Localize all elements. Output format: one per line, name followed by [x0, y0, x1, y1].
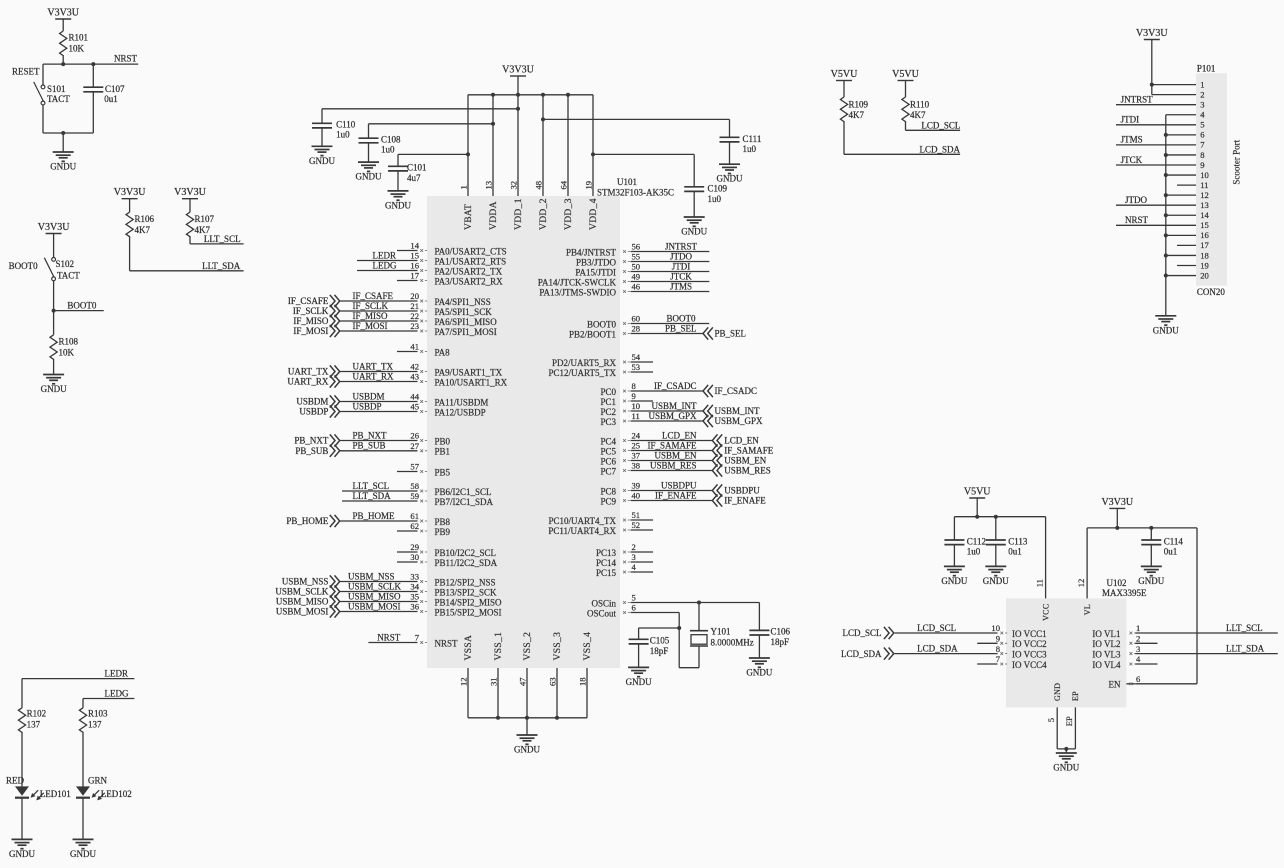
svg-text:12: 12	[459, 677, 469, 686]
svg-text:JTDI: JTDI	[672, 261, 691, 271]
svg-text:P101: P101	[1197, 63, 1216, 73]
svg-text:28: 28	[632, 324, 641, 334]
svg-text:16: 16	[1200, 230, 1209, 240]
svg-text:JTDO: JTDO	[1125, 195, 1147, 205]
svg-text:4K7: 4K7	[135, 225, 151, 235]
svg-text:V5VU: V5VU	[892, 69, 919, 80]
svg-text:C111: C111	[743, 134, 762, 144]
svg-text:10: 10	[1200, 170, 1209, 180]
svg-text:1u0: 1u0	[336, 130, 350, 140]
svg-text:14: 14	[410, 241, 419, 251]
svg-text:PC14: PC14	[596, 558, 617, 568]
svg-text:8: 8	[632, 381, 636, 391]
svg-text:IF_MISO: IF_MISO	[353, 311, 389, 321]
svg-text:55: 55	[632, 252, 641, 262]
svg-text:13: 13	[1200, 200, 1209, 210]
svg-text:GND: GND	[1053, 683, 1062, 701]
svg-text:VDDA: VDDA	[489, 201, 499, 230]
svg-text:CON20: CON20	[1197, 287, 1226, 297]
svg-text:RED: RED	[6, 776, 25, 786]
svg-text:33: 33	[410, 572, 419, 582]
svg-text:6: 6	[1200, 130, 1205, 140]
svg-text:8.0000MHz: 8.0000MHz	[711, 637, 754, 647]
svg-text:4K7: 4K7	[910, 110, 926, 120]
svg-text:38: 38	[632, 461, 641, 471]
svg-text:GNDU: GNDU	[356, 172, 382, 182]
svg-text:USBM_GPX: USBM_GPX	[715, 416, 764, 426]
svg-text:LEDR: LEDR	[105, 669, 129, 679]
svg-text:4: 4	[1136, 654, 1141, 664]
svg-text:LCD_SDA: LCD_SDA	[841, 649, 882, 659]
svg-text:PB9: PB9	[435, 527, 451, 537]
svg-text:USBM_INT: USBM_INT	[715, 406, 761, 416]
svg-text:USBDM: USBDM	[353, 391, 385, 401]
svg-text:Y101: Y101	[711, 627, 731, 637]
svg-text:39: 39	[632, 481, 641, 491]
svg-text:IF_CSAFE: IF_CSAFE	[353, 291, 394, 301]
svg-text:V3V3U: V3V3U	[38, 222, 70, 233]
svg-text:C107: C107	[105, 84, 125, 94]
svg-text:50: 50	[632, 262, 641, 272]
svg-text:PB13/SPI2_SCK: PB13/SPI2_SCK	[435, 587, 498, 597]
svg-text:25: 25	[632, 441, 641, 451]
svg-text:18pF: 18pF	[650, 646, 669, 656]
svg-text:LCD_SDA: LCD_SDA	[920, 144, 961, 154]
svg-text:JTMS: JTMS	[670, 281, 692, 291]
svg-text:PC9: PC9	[600, 496, 616, 506]
svg-text:USBM_SCLK: USBM_SCLK	[275, 587, 329, 597]
svg-text:16: 16	[410, 261, 419, 271]
svg-text:S102: S102	[56, 259, 75, 269]
svg-text:31: 31	[489, 677, 499, 686]
svg-text:56: 56	[632, 242, 641, 252]
svg-text:VDD_4: VDD_4	[589, 198, 599, 230]
svg-text:USBM_GPX: USBM_GPX	[648, 411, 697, 421]
svg-text:10K: 10K	[69, 44, 85, 54]
svg-text:C110: C110	[336, 120, 356, 130]
svg-text:10K: 10K	[59, 347, 75, 357]
svg-text:PA2/USART2_TX: PA2/USART2_TX	[435, 266, 503, 276]
svg-text:2: 2	[1200, 89, 1204, 99]
svg-text:VSS_1: VSS_1	[494, 632, 504, 661]
svg-text:NRST: NRST	[114, 54, 138, 64]
svg-text:137: 137	[27, 720, 41, 730]
svg-text:VBAT: VBAT	[464, 204, 474, 230]
svg-text:NRST: NRST	[1125, 215, 1149, 225]
svg-text:48: 48	[534, 181, 544, 190]
svg-text:PB_SUB: PB_SUB	[353, 441, 386, 451]
svg-text:IO VCC4: IO VCC4	[1012, 660, 1047, 670]
svg-text:29: 29	[410, 542, 419, 552]
svg-text:IF_CSADC: IF_CSADC	[715, 386, 758, 396]
svg-text:1u0: 1u0	[967, 547, 981, 557]
svg-text:USBDP: USBDP	[299, 407, 328, 417]
svg-text:LEDR: LEDR	[373, 250, 397, 260]
svg-text:GNDU: GNDU	[1153, 325, 1179, 335]
svg-text:0u1: 0u1	[1164, 547, 1178, 557]
svg-text:VL: VL	[1083, 604, 1092, 615]
svg-text:PA9/USART1_TX: PA9/USART1_TX	[435, 367, 503, 377]
svg-text:5: 5	[632, 593, 636, 603]
svg-text:BOOT0: BOOT0	[9, 261, 38, 271]
svg-text:USBM_MISO: USBM_MISO	[348, 591, 401, 601]
svg-text:LEDG: LEDG	[105, 689, 129, 699]
svg-text:LEDG: LEDG	[373, 260, 397, 270]
svg-text:137: 137	[88, 720, 102, 730]
svg-text:0u1: 0u1	[1008, 547, 1022, 557]
svg-text:C105: C105	[650, 636, 670, 646]
svg-text:VSSA: VSSA	[464, 635, 474, 661]
svg-text:PA8: PA8	[435, 347, 451, 357]
svg-text:11: 11	[1200, 180, 1208, 190]
svg-text:24: 24	[632, 431, 641, 441]
svg-text:UART_RX: UART_RX	[353, 371, 394, 381]
svg-text:20: 20	[410, 291, 419, 301]
svg-text:PB12/SPI2_NSS: PB12/SPI2_NSS	[435, 577, 496, 587]
svg-text:6: 6	[1136, 674, 1141, 684]
svg-text:Scooter Port: Scooter Port	[1231, 139, 1241, 184]
svg-text:PC3: PC3	[600, 417, 616, 427]
svg-text:USBM_NSS: USBM_NSS	[282, 577, 329, 587]
svg-text:PB_SUB: PB_SUB	[295, 446, 328, 456]
svg-text:1u0: 1u0	[381, 144, 395, 154]
svg-text:PC2: PC2	[600, 407, 616, 417]
svg-text:V3V3U: V3V3U	[502, 64, 534, 75]
svg-text:JTDO: JTDO	[670, 251, 692, 261]
svg-text:62: 62	[410, 521, 419, 531]
svg-text:63: 63	[548, 677, 558, 686]
svg-text:PB0: PB0	[435, 436, 451, 446]
svg-text:PA5/SPI1_SCK: PA5/SPI1_SCK	[435, 307, 493, 317]
svg-text:PB1: PB1	[435, 447, 451, 457]
svg-text:22: 22	[410, 311, 419, 321]
svg-text:LCD_SCL: LCD_SCL	[842, 628, 881, 638]
svg-text:43: 43	[410, 372, 419, 382]
svg-text:V3V3U: V3V3U	[47, 7, 79, 18]
svg-text:R101: R101	[69, 33, 89, 43]
svg-text:OSCout: OSCout	[587, 608, 617, 618]
svg-text:12: 12	[1076, 579, 1086, 588]
svg-text:V5VU: V5VU	[964, 486, 991, 497]
svg-text:17: 17	[1200, 240, 1209, 250]
svg-text:LCD_SCL: LCD_SCL	[921, 120, 960, 130]
svg-text:23: 23	[410, 321, 419, 331]
svg-text:V3V3U: V3V3U	[114, 187, 146, 198]
svg-text:49: 49	[632, 272, 641, 282]
svg-text:PC4: PC4	[600, 436, 616, 446]
svg-text:PC12/UART5_TX: PC12/UART5_TX	[549, 368, 617, 378]
svg-text:PA7/SPI1_MOSI: PA7/SPI1_MOSI	[435, 327, 497, 337]
svg-text:1: 1	[459, 185, 469, 189]
svg-text:PB4/JNTRST: PB4/JNTRST	[566, 247, 617, 257]
svg-text:LLT_SCL: LLT_SCL	[353, 481, 390, 491]
svg-text:IO VL2: IO VL2	[1092, 639, 1120, 649]
svg-text:PB_NXT: PB_NXT	[294, 436, 329, 446]
svg-text:GNDU: GNDU	[681, 227, 707, 237]
svg-text:7: 7	[415, 633, 420, 643]
svg-text:3: 3	[632, 552, 636, 562]
svg-text:USBDPU: USBDPU	[661, 480, 697, 490]
svg-text:PA1/USART2_RTS: PA1/USART2_RTS	[435, 256, 507, 266]
svg-text:VDD_3: VDD_3	[564, 198, 574, 230]
svg-text:USBM_MISO: USBM_MISO	[276, 597, 329, 607]
svg-text:TACT: TACT	[57, 270, 80, 280]
svg-text:PC8: PC8	[600, 486, 616, 496]
svg-text:8: 8	[1200, 150, 1204, 160]
svg-text:PB14/SPI2_MISO: PB14/SPI2_MISO	[435, 597, 503, 607]
svg-text:7: 7	[996, 654, 1001, 664]
svg-text:USBM_MOSI: USBM_MOSI	[276, 607, 329, 617]
svg-text:PA14/JTCK-SWCLK: PA14/JTCK-SWCLK	[538, 277, 617, 287]
svg-text:VCC: VCC	[1041, 604, 1050, 621]
svg-text:PC11/UART4_RX: PC11/UART4_RX	[548, 526, 616, 536]
svg-text:6: 6	[632, 603, 637, 613]
svg-text:IF_CSADC: IF_CSADC	[654, 381, 697, 391]
svg-text:PC15: PC15	[596, 568, 617, 578]
svg-text:MAX3395E: MAX3395E	[1102, 588, 1147, 598]
svg-text:USBM_NSS: USBM_NSS	[348, 571, 395, 581]
svg-text:EP: EP	[1064, 716, 1074, 726]
svg-text:IO VCC1: IO VCC1	[1012, 629, 1047, 639]
svg-text:5: 5	[1046, 718, 1056, 722]
svg-text:IF_MOSI: IF_MOSI	[353, 321, 388, 331]
svg-text:46: 46	[632, 282, 641, 292]
svg-text:15: 15	[410, 251, 419, 261]
svg-text:10: 10	[632, 401, 641, 411]
svg-text:IO VCC2: IO VCC2	[1012, 639, 1047, 649]
svg-text:1: 1	[1136, 623, 1140, 633]
svg-text:USBM_SCLK: USBM_SCLK	[348, 581, 402, 591]
svg-text:GNDU: GNDU	[1138, 576, 1164, 586]
svg-text:JTCK: JTCK	[1121, 155, 1143, 165]
svg-text:S101: S101	[47, 84, 66, 94]
svg-text:C114: C114	[1164, 536, 1184, 546]
svg-text:PC0: PC0	[600, 387, 616, 397]
svg-text:USBDP: USBDP	[353, 401, 382, 411]
svg-text:PB5: PB5	[435, 467, 451, 477]
svg-text:BOOT0: BOOT0	[67, 300, 96, 310]
svg-text:LCD_EN: LCD_EN	[724, 436, 759, 446]
svg-text:GNDU: GNDU	[626, 677, 652, 687]
svg-text:PD2/UART5_RX: PD2/UART5_RX	[552, 358, 616, 368]
svg-text:18: 18	[1200, 250, 1209, 260]
svg-text:PC1: PC1	[600, 397, 616, 407]
svg-text:4K7: 4K7	[849, 110, 865, 120]
svg-text:21: 21	[410, 301, 419, 311]
svg-text:7: 7	[1200, 140, 1205, 150]
svg-text:4u7: 4u7	[407, 173, 421, 183]
svg-text:11: 11	[1034, 579, 1044, 587]
svg-text:JNTRST: JNTRST	[1121, 95, 1154, 105]
svg-text:IO VL1: IO VL1	[1092, 629, 1120, 639]
svg-text:USBM_MOSI: USBM_MOSI	[348, 601, 401, 611]
svg-text:35: 35	[410, 592, 419, 602]
svg-text:VSS_3: VSS_3	[553, 632, 563, 661]
svg-text:18: 18	[578, 677, 588, 686]
svg-text:17: 17	[410, 271, 419, 281]
svg-text:9: 9	[996, 634, 1000, 644]
svg-text:UART_RX: UART_RX	[287, 377, 328, 387]
svg-text:PA6/SPI1_MISO: PA6/SPI1_MISO	[435, 317, 498, 327]
svg-text:PA13/JTMS-SWDIO: PA13/JTMS-SWDIO	[539, 287, 616, 297]
svg-text:U101: U101	[617, 177, 637, 187]
svg-text:BOOT0: BOOT0	[667, 313, 696, 323]
svg-text:C109: C109	[708, 184, 728, 194]
svg-text:IF_CSAFE: IF_CSAFE	[288, 296, 329, 306]
svg-text:64: 64	[559, 180, 569, 189]
svg-text:IF_SCLK: IF_SCLK	[293, 306, 329, 316]
svg-text:40: 40	[632, 491, 641, 501]
svg-text:TACT: TACT	[47, 94, 70, 104]
svg-text:PC7: PC7	[600, 466, 616, 476]
svg-text:PC6: PC6	[600, 456, 616, 466]
svg-text:54: 54	[632, 352, 641, 362]
svg-text:LLT_SDA: LLT_SDA	[1226, 643, 1265, 653]
svg-text:USBM_RES: USBM_RES	[650, 460, 697, 470]
svg-text:PA0/USART2_CTS: PA0/USART2_CTS	[435, 246, 507, 256]
svg-text:V3V3U: V3V3U	[1101, 497, 1133, 508]
svg-text:9: 9	[632, 391, 636, 401]
svg-text:EP: EP	[1071, 691, 1080, 701]
svg-text:GNDU: GNDU	[385, 200, 411, 210]
svg-text:V5VU: V5VU	[831, 69, 858, 80]
svg-text:15: 15	[1200, 220, 1209, 230]
svg-text:C108: C108	[381, 134, 401, 144]
svg-text:NRST: NRST	[377, 632, 401, 642]
svg-text:PA15/JTDI: PA15/JTDI	[575, 267, 616, 277]
svg-text:VSS_2: VSS_2	[523, 632, 533, 661]
svg-text:VDD_2: VDD_2	[539, 198, 549, 230]
svg-text:VDD_1: VDD_1	[514, 198, 524, 230]
svg-text:GNDU: GNDU	[9, 849, 35, 859]
svg-text:36: 36	[410, 602, 419, 612]
svg-text:19: 19	[1200, 260, 1209, 270]
svg-text:GNDU: GNDU	[514, 745, 540, 755]
svg-text:41: 41	[410, 342, 419, 352]
svg-text:PB7/I2C1_SDA: PB7/I2C1_SDA	[435, 497, 494, 507]
svg-text:PC5: PC5	[600, 446, 616, 456]
svg-text:V3V3U: V3V3U	[1136, 28, 1168, 39]
svg-text:GNDU: GNDU	[1053, 763, 1079, 773]
svg-text:2: 2	[1136, 634, 1140, 644]
svg-text:PB10/I2C2_SCL: PB10/I2C2_SCL	[435, 548, 497, 558]
svg-text:JNTRST: JNTRST	[665, 241, 698, 251]
svg-text:IO VL4: IO VL4	[1092, 660, 1121, 670]
svg-text:60: 60	[632, 314, 641, 324]
svg-text:44: 44	[410, 392, 419, 402]
svg-text:LCD_SDA: LCD_SDA	[917, 643, 958, 653]
svg-text:JTCK: JTCK	[670, 271, 692, 281]
svg-text:PB15/SPI2_MOSI: PB15/SPI2_MOSI	[435, 607, 502, 617]
svg-text:PC13: PC13	[596, 548, 617, 558]
svg-text:PB_NXT: PB_NXT	[353, 430, 388, 440]
svg-text:BOOT0: BOOT0	[587, 319, 616, 329]
svg-text:GNDU: GNDU	[41, 384, 67, 394]
svg-text:3: 3	[1136, 644, 1140, 654]
svg-text:4: 4	[1200, 110, 1205, 120]
svg-text:IO VL3: IO VL3	[1092, 650, 1121, 660]
svg-text:1u0: 1u0	[743, 144, 757, 154]
svg-text:IF_SCLK: IF_SCLK	[353, 301, 389, 311]
svg-text:IF_MOSI: IF_MOSI	[293, 326, 328, 336]
svg-text:8: 8	[996, 644, 1000, 654]
svg-text:PA11/USBDM: PA11/USBDM	[435, 397, 489, 407]
svg-text:PA10/USART1_RX: PA10/USART1_RX	[435, 377, 508, 387]
svg-text:1: 1	[1200, 79, 1204, 89]
svg-text:USBDPU: USBDPU	[724, 486, 760, 496]
svg-text:57: 57	[410, 462, 419, 472]
svg-text:GNDU: GNDU	[941, 576, 967, 586]
svg-text:PB11/I2C2_SDA: PB11/I2C2_SDA	[435, 558, 498, 568]
svg-text:PA3/USART2_RX: PA3/USART2_RX	[435, 276, 504, 286]
svg-text:USBDM: USBDM	[296, 397, 328, 407]
svg-text:USBM_EN: USBM_EN	[724, 456, 767, 466]
svg-text:13: 13	[484, 181, 494, 190]
svg-text:V3V3U: V3V3U	[174, 187, 206, 198]
svg-text:PB8: PB8	[435, 517, 451, 527]
svg-text:GNDU: GNDU	[717, 174, 743, 184]
svg-text:PB3/JTDO: PB3/JTDO	[576, 257, 617, 267]
svg-text:0u1: 0u1	[104, 94, 118, 104]
svg-text:3: 3	[1200, 100, 1204, 110]
svg-text:VSS_4: VSS_4	[583, 632, 593, 661]
svg-text:14: 14	[1200, 210, 1209, 220]
svg-text:32: 32	[509, 181, 519, 190]
svg-text:34: 34	[410, 582, 419, 592]
svg-text:18pF: 18pF	[771, 637, 790, 647]
svg-text:C106: C106	[771, 627, 791, 637]
svg-text:IF_SAMAFE: IF_SAMAFE	[647, 440, 697, 450]
svg-text:PB_SEL: PB_SEL	[715, 329, 747, 339]
svg-text:PB_SEL: PB_SEL	[665, 323, 697, 333]
svg-text:GNDU: GNDU	[983, 576, 1009, 586]
svg-text:27: 27	[410, 441, 419, 451]
svg-text:PB6/I2C1_SCL: PB6/I2C1_SCL	[435, 487, 492, 497]
svg-text:U102: U102	[1107, 578, 1127, 588]
svg-text:19: 19	[584, 181, 594, 190]
svg-text:LLT_SCL: LLT_SCL	[1226, 623, 1263, 633]
svg-text:R103: R103	[88, 709, 108, 719]
svg-text:IO VCC3: IO VCC3	[1012, 650, 1047, 660]
svg-text:EN: EN	[1109, 680, 1121, 690]
svg-text:GNDU: GNDU	[50, 162, 76, 172]
svg-text:GNDU: GNDU	[309, 156, 335, 166]
svg-text:58: 58	[410, 481, 419, 491]
svg-text:IF_ENAFE: IF_ENAFE	[724, 496, 766, 506]
svg-text:RESET: RESET	[12, 67, 40, 77]
svg-text:LLT_SCL: LLT_SCL	[204, 234, 241, 244]
svg-text:GRN: GRN	[88, 776, 108, 786]
svg-text:USBM_INT: USBM_INT	[651, 401, 697, 411]
svg-text:11: 11	[632, 411, 640, 421]
svg-text:LED102: LED102	[101, 789, 132, 799]
svg-text:10: 10	[991, 623, 1000, 633]
svg-text:IF_SAMAFE: IF_SAMAFE	[724, 446, 774, 456]
svg-text:PA12/USBDP: PA12/USBDP	[435, 407, 486, 417]
svg-text:R110: R110	[910, 99, 930, 109]
svg-text:USBM_EN: USBM_EN	[654, 450, 697, 460]
svg-text:C112: C112	[967, 536, 986, 546]
svg-text:R108: R108	[59, 336, 79, 346]
svg-text:GNDU: GNDU	[746, 668, 772, 678]
svg-text:PB2/BOOT1: PB2/BOOT1	[569, 329, 616, 339]
svg-text:R102: R102	[27, 709, 47, 719]
svg-text:LED101: LED101	[40, 789, 71, 799]
svg-text:OSCin: OSCin	[591, 598, 616, 608]
svg-text:LLT_SDA: LLT_SDA	[353, 491, 392, 501]
svg-text:R106: R106	[135, 214, 155, 224]
svg-text:12: 12	[1200, 190, 1209, 200]
